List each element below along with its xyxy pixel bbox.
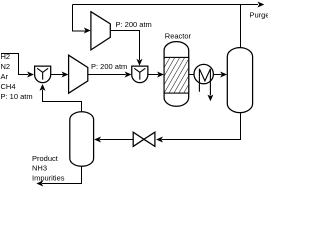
arrowhead product out <box>36 181 43 187</box>
wire compressor K1 to mixer M2 <box>88 74 126 76</box>
arrowhead heat out of cooler E1 <box>208 95 214 102</box>
wire recycle to compressor K2 <box>73 5 86 32</box>
arrowhead into flash vessel V2 <box>94 137 101 143</box>
wire flash vessel V2 vapor recycle to mixer M1 <box>43 90 82 112</box>
arrowhead into separator V1 <box>220 72 227 78</box>
arrowhead feed into mixer M1 <box>27 72 34 78</box>
arrowhead into mixer M2 top <box>137 59 143 66</box>
cooler E1 (circle with coil) <box>194 64 213 95</box>
arrowhead into valve right <box>156 137 163 143</box>
svg-text:Reactor: Reactor <box>165 32 192 41</box>
arrowhead into mixer M2 left <box>125 72 132 78</box>
mixer M2 <box>132 66 148 83</box>
svg-text:Ar: Ar <box>1 72 9 81</box>
svg-text:Impurities: Impurities <box>32 173 65 182</box>
arrowhead into compressor K1 <box>62 72 69 78</box>
wire valve to flash vessel V2 <box>100 139 133 141</box>
wire cooler E1 to separator V1 <box>213 74 221 76</box>
svg-text:NH3: NH3 <box>32 164 47 173</box>
svg-text:P: 200 atm: P: 200 atm <box>91 62 127 71</box>
reactor R1 vessel <box>164 42 189 107</box>
mixer M1 <box>35 66 51 83</box>
compressor K1 <box>69 55 88 93</box>
arrowhead into reactor <box>157 72 164 78</box>
flash vessel V2 <box>70 112 94 167</box>
reactor R1 catalyst bed (hatched) <box>145 57 210 93</box>
svg-text:H2: H2 <box>1 52 11 61</box>
arrowhead into compressor K2 <box>84 28 91 34</box>
svg-text:P: 10 atm: P: 10 atm <box>1 92 33 101</box>
wire separator V1 top to purge and recycle <box>73 5 259 48</box>
svg-text:N2: N2 <box>1 62 11 71</box>
valve VLV1 <box>133 132 155 146</box>
svg-text:CH4: CH4 <box>1 82 16 91</box>
wire reactor to cooler E1 <box>189 74 195 76</box>
wire mixer M1 to compressor K1 <box>51 74 63 76</box>
wire flash vessel V2 bottom to product <box>42 166 81 184</box>
svg-text:Product: Product <box>32 154 59 163</box>
svg-text:P: 200 atm: P: 200 atm <box>116 20 152 29</box>
wire separator V1 bottom to valve <box>162 112 241 139</box>
wire mixer M2 to reactor <box>148 74 159 76</box>
wire compressor K2 to mixer M2 top <box>110 31 139 61</box>
arrowhead into mixer M1 bottom <box>40 84 46 91</box>
arrowhead purge <box>258 2 265 8</box>
compressor K2 <box>91 12 110 50</box>
separator V1 vessel <box>227 48 252 113</box>
wire feed into mixer M1 <box>1 54 28 75</box>
svg-text:Purge: Purge <box>250 10 269 19</box>
